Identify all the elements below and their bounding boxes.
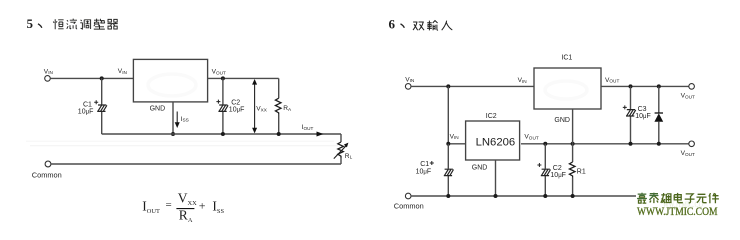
node: C2 top junction — [543, 142, 547, 146]
branch wire down to IC2 and C1 — [448, 86, 465, 143]
node: C2 bottom — [221, 132, 225, 136]
watermark teal tint overlay — [637, 193, 658, 200]
resistor RA — [275, 78, 292, 134]
svg-text:R1: R1 — [577, 169, 586, 176]
svg-text:RL: RL — [345, 153, 353, 160]
capacitor C1 (right) — [416, 144, 454, 196]
svg-text:Common: Common — [32, 170, 62, 179]
svg-text:10μF: 10μF — [635, 113, 651, 120]
terminal VOUT top right — [681, 84, 695, 100]
svg-text:VIN: VIN — [450, 133, 459, 140]
svg-text:IC2: IC2 — [486, 113, 497, 120]
svg-text:VOUT: VOUT — [681, 150, 695, 157]
capacitor C1 (left) — [78, 78, 107, 134]
node: VIN junction — [100, 76, 104, 80]
svg-text:5: 5 — [27, 16, 34, 31]
svg-text:VIN: VIN — [518, 77, 527, 84]
bottom rail wire (right circuit) — [411, 195, 636, 197]
svg-text:Common: Common — [394, 202, 424, 211]
terminal Common (right) — [394, 193, 424, 210]
node: R1/IC1-GND junction — [571, 142, 575, 146]
scan artifact faint line B — [30, 145, 338, 147]
svg-text:10μF: 10μF — [416, 168, 432, 175]
svg-text:C2: C2 — [553, 165, 562, 172]
svg-text:+: + — [199, 198, 206, 212]
node: branch junction to IC2 — [446, 84, 450, 88]
node: C3 bottom junction — [629, 142, 633, 146]
terminal VIN right — [405, 76, 414, 89]
svg-text:VIN: VIN — [44, 68, 53, 75]
node: C2 bottom — [543, 194, 547, 198]
heading text 恒流调整器 — [53, 19, 118, 30]
mid rail wire (left circuit) — [102, 133, 341, 135]
svg-text:IOUT: IOUT — [302, 124, 314, 131]
svg-text:GND: GND — [554, 117, 570, 124]
wire VIN to regulator — [50, 77, 133, 79]
node: VOUT junction at C2 — [221, 76, 225, 80]
regulator box U1 (left) — [133, 59, 207, 102]
svg-text:VXX: VXX — [256, 106, 268, 113]
scan artifact faint line A — [26, 140, 334, 142]
capacitor C3 — [623, 86, 651, 143]
terminal VIN left — [44, 68, 53, 81]
svg-text:ISS: ISS — [181, 116, 189, 123]
svg-text:C1: C1 — [83, 102, 92, 109]
svg-text:GND: GND — [150, 105, 166, 112]
voltage arrow VXX — [252, 79, 268, 133]
bottom rail wire (left circuit) — [51, 163, 341, 165]
formula Iout = Vxx/Ra + Iss — [142, 190, 224, 223]
svg-text:10μF: 10μF — [550, 172, 566, 179]
svg-text:LN6206: LN6206 — [476, 137, 516, 149]
watermark 嘉泰姆电子元件 — [637, 193, 719, 204]
svg-text:10μF: 10μF — [229, 106, 245, 113]
svg-text:C2: C2 — [231, 99, 240, 106]
node: C1 bottom — [446, 194, 450, 198]
node: diode top junction — [657, 84, 661, 88]
wire IC1 VOUT to VOUT terminal — [601, 85, 689, 87]
IC2 box LN6206 — [466, 113, 520, 160]
node: IC2 VIN junction — [446, 142, 450, 146]
svg-text:IC1: IC1 — [561, 54, 572, 61]
heading number 5 — [27, 16, 42, 31]
mid rail wire (right circuit) — [521, 143, 689, 145]
svg-text:VOUT: VOUT — [524, 134, 538, 141]
diode D1 — [654, 86, 663, 143]
svg-text:RA: RA — [283, 105, 292, 112]
svg-text:VOUT: VOUT — [212, 69, 226, 76]
svg-text:10μF: 10μF — [78, 109, 94, 116]
svg-text:6: 6 — [389, 17, 396, 32]
node: GND-rail junction — [171, 132, 175, 136]
svg-text:VIN: VIN — [118, 68, 127, 75]
svg-text:VIN: VIN — [405, 76, 414, 83]
top wire VIN to IC1 — [411, 85, 534, 87]
heading text 双输入 — [413, 21, 452, 31]
capacitor C2 (right) — [537, 144, 566, 196]
capacitor C2 (left) — [216, 78, 244, 134]
variable resistor RL — [334, 134, 353, 164]
resistor R1 — [569, 144, 585, 196]
svg-text:VOUT: VOUT — [605, 77, 619, 84]
terminal Common (left) — [32, 161, 62, 179]
IC1 box — [534, 54, 601, 109]
wire GND pin down to rail — [172, 102, 174, 134]
node: C3 top junction — [629, 84, 633, 88]
svg-text:WWW.JTMIC.COM: WWW.JTMIC.COM — [637, 204, 718, 218]
node: diode bottom junction — [657, 142, 661, 146]
node: IC2 GND bottom — [494, 194, 498, 198]
current arrow IOUT — [302, 124, 324, 136]
wire VOUT to RA — [208, 77, 279, 79]
node: R1 bottom — [571, 194, 575, 198]
heading number 6 — [389, 17, 405, 32]
svg-text:=: = — [166, 199, 172, 211]
node: RA bottom — [277, 132, 281, 136]
svg-text:VOUT: VOUT — [681, 93, 695, 100]
svg-text:GND: GND — [472, 165, 488, 172]
current arrow Iss — [175, 112, 189, 129]
wire IC2 GND to bottom rail — [495, 160, 497, 196]
svg-text:C1: C1 — [420, 161, 429, 168]
wire IC1 GND to mid rail — [572, 109, 574, 144]
terminal VOUT mid right — [681, 141, 695, 157]
